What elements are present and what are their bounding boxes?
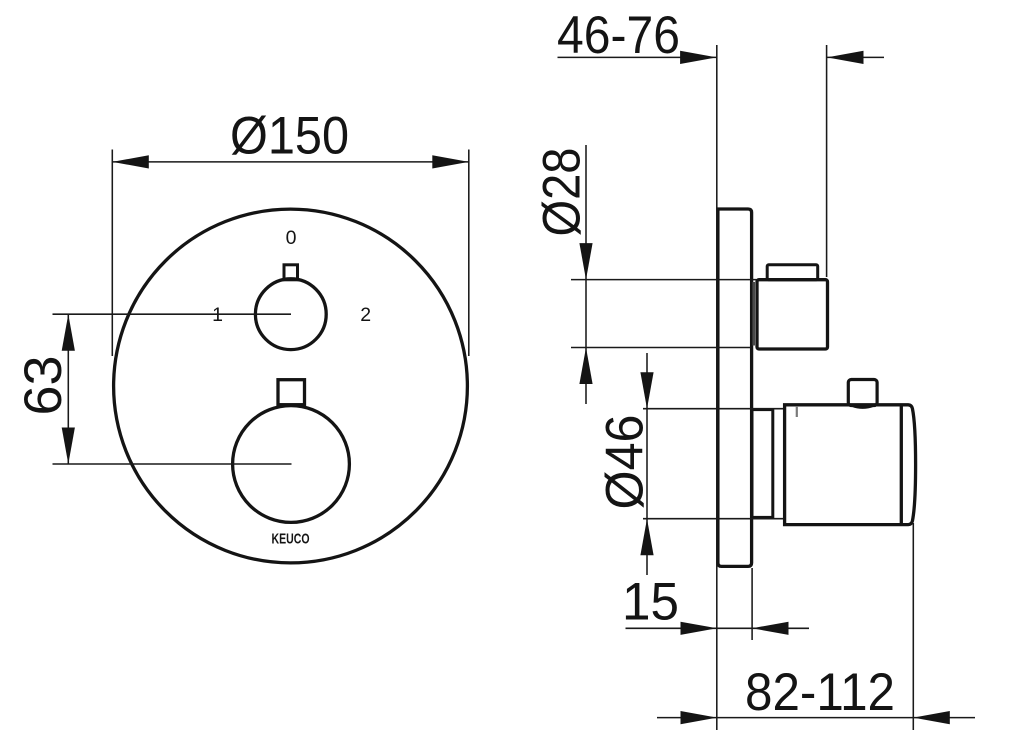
escutcheon plate front view (big circle) [114,209,468,563]
thermostat knob front view (large circle) [233,406,350,523]
svg-text:Ø46: Ø46 [596,415,655,510]
Ø28 dimension line [585,145,587,404]
leader line knob 1 [53,313,292,315]
15 arrow right [752,622,789,635]
handle stem shadow [752,282,755,346]
46-76 arrow right [827,51,864,64]
Ø28 extension line top [571,279,757,281]
svg-text:63: 63 [14,356,73,416]
63 dimension line [67,314,69,464]
Ø28 arrow up [579,348,592,385]
15 extension line [751,568,753,640]
82-112 extension line right [912,523,914,730]
volume-control knob front view (small circle) [255,279,326,350]
63 arrow down [62,428,75,465]
thermostat knob grip tab [278,380,305,405]
82-112 dimension line [657,717,975,719]
volume knob side view cap [767,265,818,280]
svg-text:0: 0 [286,227,297,249]
svg-text:Ø150: Ø150 [230,107,349,166]
46-76 dimension line right part [827,56,884,58]
15 dimension line [626,627,810,629]
recess arc under button [852,406,873,408]
82-112 arrow left [681,711,718,724]
thermostat knob end-cap parting line [900,406,903,525]
wall line [716,45,718,730]
Ø46 extension line top [643,408,783,410]
arrowheads [62,51,950,724]
Ø46 dimension line [646,353,648,575]
Ø150 arrow right [432,155,469,168]
82-112 arrow right [913,711,950,724]
safety override button on thermostat knob [848,380,877,406]
wall plate side view [718,209,752,566]
thermostat knob side view body [785,405,916,525]
svg-text:82-112: 82-112 [745,663,895,722]
46-76 dimension line left part [558,56,717,58]
side view [718,209,916,566]
Ø28 arrow down [579,243,592,280]
63 arrow up [62,314,75,351]
46-76 arrow left [680,51,717,64]
Ø150 arrow left [112,155,149,168]
leader line thermostat knob [53,463,292,465]
46-76 extension line right [826,45,828,277]
Ø46 extension line bottom [643,518,783,520]
index mark on thermostat knob [796,406,798,417]
svg-text:2: 2 [360,304,371,326]
Ø28 extension line bottom [571,347,751,349]
15 arrow left [681,622,718,635]
svg-text:46-76: 46-76 [557,6,680,65]
Ø46 arrow down [640,372,653,409]
Ø150 dimension line [112,161,469,163]
volume knob grip tab [284,265,298,280]
svg-text:KEUCO: KEUCO [272,531,310,548]
volume knob side view body [757,280,828,349]
Ø150 extension line left [111,150,113,357]
Ø46 arrow up [640,519,653,556]
svg-text:Ø28: Ø28 [533,148,592,237]
thermostat sleeve side view [752,410,773,518]
Ø150 extension line right [468,150,470,357]
svg-text:15: 15 [622,573,679,632]
